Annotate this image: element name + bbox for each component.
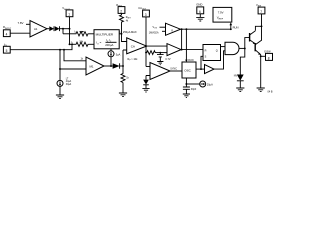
terminal GND [197,7,204,14]
wire to M1 lower input [59,68,61,70]
resistor RP [121,66,125,83]
wire CA lower input [123,50,127,66]
wire FF to gate [221,46,226,48]
wire buffer to gate [214,51,225,69]
wire I1 to ground [59,86,61,95]
svg-text:5: 5 [6,49,8,53]
wire IY row [70,43,76,45]
transistor Q2 [254,43,256,51]
svg-text:SYNC: SYNC [170,67,177,70]
comparator C1 [166,23,181,35]
svg-text:30µA: 30µA [66,83,72,86]
svg-text:R: R [205,49,207,52]
regulator U2 VREF [213,7,232,22]
ground battery [157,62,163,65]
wire CAOUT to CA output [145,17,147,46]
svg-text:CA: CA [131,44,135,48]
svg-text:IO =: IO = [96,41,101,46]
wire VBOUT to node [69,17,71,29]
svg-text:1: 1 [68,13,70,17]
wire S1 upper input [146,66,150,68]
wire multiplier output [119,33,121,35]
diode D1 [49,26,54,31]
wire Q2 emitter [260,55,262,88]
wire OSC to buffer [196,68,205,70]
op-amp A1 [30,21,47,37]
transistor Q1 [249,33,251,42]
ground I1 [56,95,64,99]
diode D4 [237,75,244,81]
svg-text:0.7V: 0.7V [165,58,170,61]
wire IX row [63,33,75,35]
wire down to RC filter and S1 [145,46,147,66]
svg-text:20µA: 20µA [207,83,213,86]
wire gate output [239,47,245,49]
wire RSET to CA upper input [122,23,127,42]
ground D5 [142,88,149,92]
svg-text:M1: M1 [90,64,94,68]
wire CA output to C2 [147,45,168,47]
svg-text:200µA: 200µA [105,43,113,47]
terminal RSET [118,7,125,14]
terminal VBOUT [66,10,73,17]
svg-text:1MV/1EA: 1MV/1EA [149,32,159,35]
wire I2 to M1 output node [110,57,112,66]
svg-text:NV: NV [234,74,238,77]
svg-text:8: 8 [268,56,270,60]
diode D2 [55,26,60,31]
RUN riser to VREF [230,25,232,29]
wire GND to ground [199,14,201,18]
comparator C2 [167,44,181,56]
svg-text:RSET: RSET [126,17,132,20]
input terminal J1 [3,30,10,37]
terminal CAOUT [143,10,150,17]
resistor RSET [120,13,124,22]
resistor RF [146,51,156,55]
op-amp M1 [86,57,104,75]
wire RUN to OSC [185,29,187,60]
ground RP [119,93,127,97]
multiplier U1 [94,30,119,49]
svg-text:44µA: 44µA [66,80,72,83]
wire J1 to A1 lower input [10,32,30,34]
wire C2 output to FF [181,49,203,51]
wire C1 output RUN line [181,28,231,30]
wire OSC cap node [185,78,187,87]
wire diode node [60,28,70,30]
svg-text:4: 4 [6,33,8,37]
wire M1 output [104,65,113,67]
ground COSC [183,94,190,98]
diode D5 [143,80,149,85]
ground emitter [257,88,265,92]
wire D3 to RP [120,65,123,67]
wire 7.8V to A1 upper input [26,23,30,25]
current source I2 3uA [110,49,112,51]
wire Q1 collector [255,26,261,30]
svg-text:2: 2 [120,9,122,13]
current source I3 20uA [200,81,206,87]
diode D3 [113,63,120,68]
flip-flop FF1 [203,45,221,61]
svg-text:6: 6 [199,10,201,14]
svg-text:Q: Q [216,50,218,53]
terminal VSW [258,7,265,14]
wire A1 output [47,28,49,30]
svg-text:OSC: OSC [184,69,191,73]
svg-text:30pF: 30pF [191,88,197,91]
svg-text:04 B: 04 B [268,91,273,94]
wire S1 lower input [146,76,150,80]
wire to M1 upper input [64,50,86,61]
wire emitter to ESW [261,55,266,57]
wire VSW to collector [261,14,263,41]
svg-text:7.9V: 7.9V [218,11,224,15]
svg-text:3: 3 [145,13,147,17]
wire node to IX row [62,29,64,34]
battery 0.7V [157,53,164,62]
resistor RY [75,42,89,46]
wire C1 to FF input [181,29,183,49]
svg-text:7: 7 [260,10,262,14]
wire S1 to OSC [170,70,182,72]
ground GND pin [196,17,204,21]
wire OSC to FF set input [201,56,203,69]
wire IIN row [10,44,72,49]
op-amp CA [127,38,147,54]
resistor RX [75,32,89,36]
terminal IIN [3,46,10,53]
wire RP to ground [122,83,124,94]
svg-text:GND: GND [196,3,202,7]
wire to current source I3 [186,83,199,85]
wire VBOUT branch to IY row [69,29,71,45]
current source I1 44uA/30uA [57,80,63,86]
svg-text:3µA: 3µA [116,54,121,57]
svg-text:RUN: RUN [233,26,239,30]
wire Q1 base [245,38,250,49]
svg-text:MULTIPLIER: MULTIPLIER [96,33,114,37]
wire down to current source I1 [59,50,61,81]
capacitor COSC [183,87,190,94]
op-amp S1 [150,63,170,80]
svg-text:7.8V: 7.8V [18,21,24,25]
svg-text:A1: A1 [34,27,38,31]
svg-text:250µA MAX: 250µA MAX [123,30,137,34]
wire gate node to D4 [240,48,245,74]
oscillator OSC [182,62,196,78]
buffer B1 [205,65,215,74]
terminal ESW [266,53,273,60]
ground D4 [236,88,244,92]
AND gate G1 [225,42,239,54]
